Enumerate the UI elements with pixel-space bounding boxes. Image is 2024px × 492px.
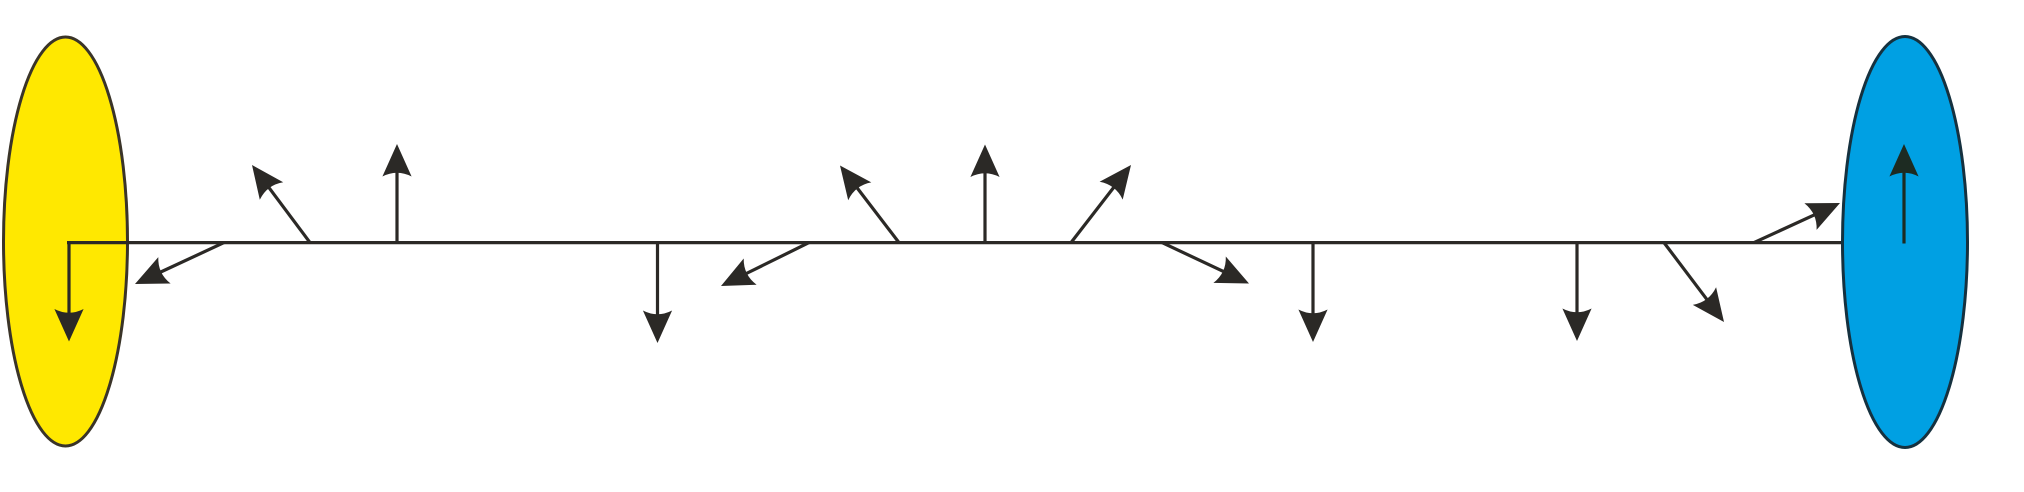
E-field vector 1 (down, inside yellow disk): [54, 243, 83, 342]
E-field vector 6 (down-left): [721, 243, 809, 286]
yellow source disk (unpolarized light source): [4, 37, 128, 446]
E-field vector 11 (down): [1298, 243, 1327, 342]
E-field vector 9 (up-right): [1071, 165, 1131, 243]
E-field vector 12 (down): [1562, 243, 1591, 341]
E-field vector 7 (up-left): [840, 166, 899, 243]
blue polarizer disk: [1843, 37, 1968, 448]
E-field vector 14 (up-right): [1754, 203, 1840, 243]
E-field vector 5 (down): [643, 243, 672, 343]
E-field vector 4 (up): [382, 144, 411, 243]
E-field vector 13 (down-right): [1664, 243, 1724, 322]
propagation ray line: [67, 241, 1844, 244]
E-field vector 10 (down-right): [1162, 243, 1249, 284]
transmission axis arrow (up, inside blue disk): [1889, 144, 1918, 244]
E-field vector 3 (up-left): [252, 165, 310, 243]
E-field vector 2 (down-left): [135, 243, 224, 284]
E-field vector 8 (up): [970, 145, 999, 243]
